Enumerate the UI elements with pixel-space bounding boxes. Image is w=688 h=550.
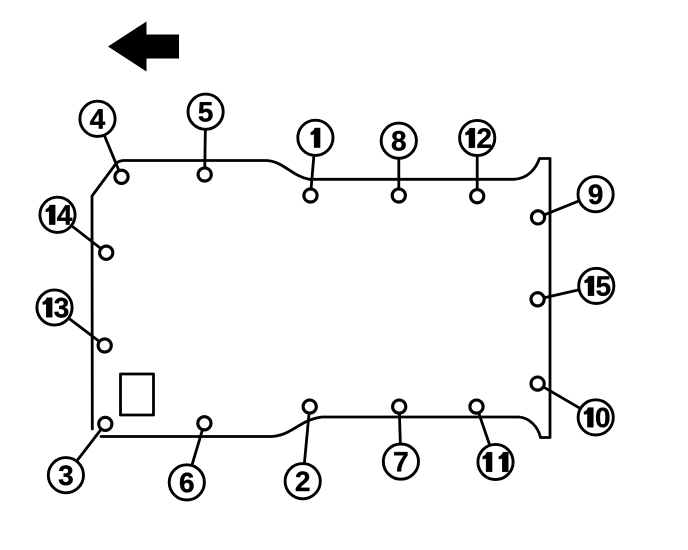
label 5 <box>199 102 213 122</box>
callout circle 3 <box>48 458 83 493</box>
leader line 15 <box>538 286 597 299</box>
leader line 13 <box>55 308 105 346</box>
leader line 9 <box>538 194 596 217</box>
bolt hole 1 <box>304 189 317 202</box>
leader line 7 <box>399 407 401 462</box>
leader line 2 <box>303 407 310 482</box>
label 13 <box>43 298 69 318</box>
callout circle 2 <box>285 464 320 499</box>
label 4 <box>90 109 105 128</box>
label 1 <box>311 128 320 148</box>
leader line 1 <box>311 138 316 196</box>
label 2 <box>296 471 310 491</box>
callout circle 11 <box>478 444 513 479</box>
label 6 <box>180 473 194 493</box>
oil pan gasket outline <box>92 159 550 438</box>
leader line 6 <box>187 423 205 482</box>
label 7 <box>394 452 407 471</box>
bolt hole 8 <box>392 189 405 202</box>
direction arrow (front of engine) <box>108 22 179 72</box>
leader line 3 <box>66 424 105 475</box>
label 11 <box>483 452 509 472</box>
leader line 12 <box>476 138 479 196</box>
leader line 11 <box>477 407 496 462</box>
callout circle 12 <box>460 120 495 155</box>
leader line 8 <box>397 141 400 196</box>
callout circle 5 <box>188 94 223 129</box>
bolt hole 4 <box>115 170 128 183</box>
bolt hole 3 <box>99 417 112 430</box>
label 12 <box>466 128 491 148</box>
leader line 10 <box>538 384 596 418</box>
callout circle 14 <box>40 197 75 232</box>
drain plug rectangle <box>121 374 154 415</box>
bolt hole 13 <box>98 339 111 352</box>
bolt hole 2 <box>303 400 316 413</box>
leader line 4 <box>98 119 122 177</box>
bolt hole 10 <box>531 377 544 390</box>
callout circle 9 <box>578 177 613 212</box>
label 9 <box>589 184 603 204</box>
bolt hole 15 <box>531 293 544 306</box>
label 14 <box>46 205 72 225</box>
leader line 5 <box>203 112 207 175</box>
bolt hole 14 <box>100 246 113 259</box>
bolt hole 6 <box>198 417 211 430</box>
callout circle 13 <box>37 290 72 325</box>
label 15 <box>585 276 611 296</box>
bolt hole 5 <box>198 168 211 181</box>
callout circle 8 <box>381 123 416 158</box>
bolt hole 12 <box>471 190 484 203</box>
label 10 <box>584 408 609 428</box>
callout circle 15 <box>579 268 614 303</box>
callout circle 7 <box>383 444 418 479</box>
label 3 <box>59 465 73 485</box>
bolt hole 11 <box>470 400 483 413</box>
callout circle 10 <box>578 400 613 435</box>
callout circle 1 <box>298 120 333 155</box>
callout circle 4 <box>80 101 115 136</box>
leader line 14 <box>58 215 107 253</box>
bolt hole 9 <box>531 211 544 224</box>
callout circle 6 <box>169 465 204 500</box>
bolt hole 7 <box>393 400 406 413</box>
label 8 <box>392 131 406 151</box>
